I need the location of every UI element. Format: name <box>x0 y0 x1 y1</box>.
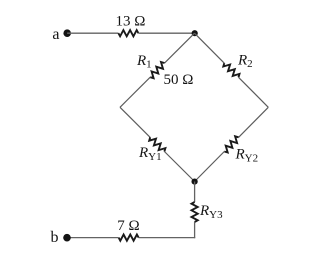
wire R2 to right vertex <box>239 77 269 107</box>
node b <box>63 234 71 242</box>
resistor RY1 <box>149 137 165 151</box>
wire a to resistor 13 <box>67 32 118 34</box>
resistor RY2 <box>224 136 238 152</box>
top node <box>192 30 198 36</box>
wire RY3 to bottom corner <box>194 222 196 238</box>
wire bottom node to RY3 <box>194 182 196 203</box>
resistor RY3 <box>192 202 198 222</box>
wire resistor 13 to top node <box>138 32 194 34</box>
bottom node <box>192 179 198 185</box>
wire RY2 to bottom node <box>195 152 225 182</box>
wire right vertex to RY2 <box>239 107 269 137</box>
wire left vertex to RY1 <box>120 107 150 137</box>
resistor 7 ohm <box>119 235 139 241</box>
resistor 13 ohm <box>118 30 138 36</box>
svg-text:7 Ω: 7 Ω <box>117 218 139 234</box>
wire RY1 to bottom node <box>164 152 194 182</box>
wire bottom corner to resistor 7 <box>139 237 196 239</box>
wire top node to R1 <box>164 33 194 63</box>
svg-text:13 Ω: 13 Ω <box>116 14 146 30</box>
wire resistor 7 to node b <box>67 237 119 239</box>
resistor R2 <box>223 63 239 77</box>
node a <box>63 29 71 37</box>
wire R1 to left vertex <box>120 77 150 107</box>
svg-text:50 Ω: 50 Ω <box>164 72 194 88</box>
resistor R1 <box>150 62 164 78</box>
svg-text:b: b <box>51 229 59 246</box>
wire top node to R2 <box>195 33 225 63</box>
svg-text:a: a <box>52 26 59 43</box>
